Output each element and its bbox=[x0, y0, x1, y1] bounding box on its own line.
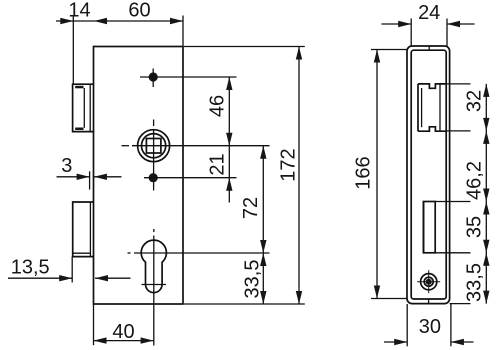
svg-text:40: 40 bbox=[112, 321, 134, 343]
svg-text:60: 60 bbox=[128, 0, 150, 22]
euro profile cylinder hole bbox=[141, 240, 166, 292]
vertical centerline through holes bbox=[153, 120, 155, 346]
svg-text:24: 24 bbox=[418, 2, 440, 24]
faceplate side view outer outline (right view) bbox=[407, 46, 450, 304]
dimension 13,5 (deadbolt protrusion) bbox=[8, 257, 131, 283]
top seam tick bbox=[428, 46, 430, 50]
svg-text:46: 46 bbox=[206, 95, 228, 117]
dimension 72 (follower to cylinder) bbox=[240, 146, 267, 304]
extension lines for dimension 32 bbox=[446, 83, 470, 85]
dimension 33,5 right bbox=[464, 253, 490, 304]
svg-text:3: 3 bbox=[61, 155, 72, 177]
fixing screw hole side view bbox=[417, 270, 440, 293]
dimension 21 (follower to lower hole) bbox=[206, 153, 232, 190]
dimension 3 (faceplate thickness) bbox=[57, 155, 122, 190]
dimension 46,2 bbox=[464, 131, 490, 202]
horizontal centerline of follower bbox=[122, 145, 270, 147]
dimension 35 (deadbolt slot height) bbox=[464, 202, 490, 253]
svg-text:21: 21 bbox=[206, 153, 228, 175]
dimension 40 (backset) bbox=[94, 304, 154, 345]
dimension 14 (latch protrusion) bbox=[56, 0, 91, 84]
deadbolt front view (bottom-left protrusion) bbox=[73, 202, 94, 257]
svg-text:72: 72 bbox=[240, 197, 262, 219]
extension lines for dimensions 35 / 46,2 bbox=[435, 201, 470, 203]
extension line case top right bbox=[184, 46, 305, 48]
svg-text:35: 35 bbox=[464, 216, 486, 238]
svg-text:14: 14 bbox=[68, 0, 90, 22]
bottom seam tick bbox=[428, 299, 430, 304]
dimension 46 (upper hole to follower) bbox=[206, 77, 232, 203]
svg-text:33,5: 33,5 bbox=[242, 260, 264, 299]
svg-text:166: 166 bbox=[353, 156, 375, 189]
upper fixing hole (filled dot) bbox=[140, 69, 237, 88]
dimension 24 (faceplate width) bbox=[382, 2, 475, 46]
right side chained dimension line bbox=[485, 84, 487, 304]
svg-text:30: 30 bbox=[419, 316, 441, 338]
extension line case bottom right bbox=[184, 303, 305, 305]
horizontal centerline of cylinder bbox=[128, 252, 270, 254]
svg-text:32: 32 bbox=[464, 90, 486, 112]
svg-text:46,2: 46,2 bbox=[464, 161, 486, 200]
svg-text:13,5: 13,5 bbox=[11, 257, 50, 279]
follower (square spindle hub) bbox=[138, 130, 170, 162]
dimension 33,5 left (cylinder to case bottom) bbox=[242, 253, 267, 304]
dimension 32 (latch height) bbox=[464, 84, 490, 131]
latch bolt front view (top-left protrusion) bbox=[73, 84, 94, 131]
lower fixing hole (filled dot) bbox=[144, 173, 237, 182]
latch bolt side view bbox=[418, 84, 446, 131]
dimension 172 (case height) bbox=[278, 47, 303, 305]
dimension 166 (faceplate length) bbox=[353, 50, 408, 299]
lock case front view (left view body) bbox=[94, 47, 184, 305]
dimension 60 (case depth) bbox=[73, 0, 183, 47]
dimension 30 (case width bottom) bbox=[384, 304, 474, 346]
svg-text:33,5: 33,5 bbox=[464, 263, 486, 302]
deadbolt slot side view bbox=[423, 202, 435, 253]
svg-text:172: 172 bbox=[278, 148, 300, 181]
extension line case bottom right view bbox=[450, 303, 471, 305]
faceplate side view inner outline bbox=[411, 50, 446, 299]
